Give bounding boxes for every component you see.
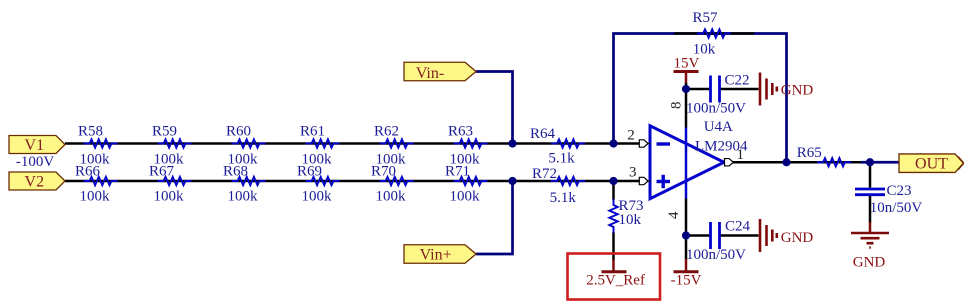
svg-text:100k: 100k — [376, 189, 407, 205]
power 2.5V_Ref — [586, 272, 645, 289]
junction node output / C23 — [866, 158, 874, 166]
capacitor C22 100n/50V — [686, 72, 750, 116]
resistor R63 100k — [448, 124, 488, 168]
svg-text:Vin-: Vin- — [416, 65, 444, 82]
wire feedback loop pin2 to output — [614, 34, 787, 163]
resistor R59 100k — [152, 124, 192, 168]
svg-text:R69: R69 — [297, 164, 322, 180]
svg-text:OUT: OUT — [915, 156, 948, 173]
port OUT tail chevron — [958, 157, 964, 170]
wire R73 to 2.5V_Ref — [612, 232, 615, 260]
svg-text:R60: R60 — [226, 124, 251, 140]
op-amp U4A LM2904 — [650, 119, 748, 199]
pin 2 arrow — [627, 127, 650, 147]
resistor R60 100k — [226, 124, 266, 168]
svg-text:R71: R71 — [445, 164, 470, 180]
wire opamp pin 4 to C24 node — [685, 199, 688, 236]
svg-text:GND: GND — [853, 254, 886, 270]
junction node pin3 — [609, 177, 617, 185]
power ground at C24 — [760, 219, 813, 252]
power 15V — [673, 56, 699, 72]
resistor R73 10k (vertical) — [609, 198, 643, 233]
wire Vin- to top chain — [476, 72, 513, 144]
resistor R62 100k — [374, 124, 414, 168]
svg-text:2.5V_Ref: 2.5V_Ref — [586, 272, 645, 288]
wire C24 node to -15V — [685, 236, 688, 260]
svg-text:R57: R57 — [692, 10, 718, 26]
svg-text:2: 2 — [627, 127, 635, 143]
svg-text:8: 8 — [669, 101, 685, 109]
power ground at C22 — [760, 73, 813, 106]
resistor R69 100k — [297, 164, 340, 205]
wire top resistor chain net — [65, 142, 640, 145]
wire C24 to power ground — [721, 234, 759, 237]
junction node Vin+ / bottom chain — [508, 177, 516, 185]
power -15V — [671, 272, 702, 289]
svg-text:10k: 10k — [619, 212, 642, 228]
svg-text:R68: R68 — [223, 164, 248, 180]
svg-text:Vin+: Vin+ — [420, 247, 452, 264]
svg-text:R62: R62 — [374, 124, 399, 140]
svg-text:100k: 100k — [302, 189, 333, 205]
resistor R65 — [797, 145, 851, 166]
wire pin3 node to R73 — [612, 181, 615, 200]
svg-text:V1: V1 — [25, 137, 45, 154]
svg-text:R61: R61 — [300, 124, 325, 140]
svg-text:R70: R70 — [371, 164, 396, 180]
svg-text:-15V: -15V — [671, 272, 702, 288]
svg-text:100k: 100k — [228, 189, 259, 205]
pin 1 arrow — [725, 147, 744, 166]
svg-text:V2: V2 — [25, 173, 45, 190]
resistor R61 100k — [300, 124, 340, 168]
junction node feedback / output — [782, 158, 790, 166]
port Vin- — [404, 62, 476, 82]
svg-text:100k: 100k — [154, 189, 185, 205]
wire pin8 node to opamp pin 8 — [685, 89, 688, 128]
junction node V+ supply — [682, 85, 690, 93]
svg-text:100n/50V: 100n/50V — [686, 100, 746, 116]
junction node pin2 — [609, 139, 617, 147]
wire R57 pins — [674, 32, 754, 35]
resistor R72 5.1k — [532, 166, 585, 206]
wire C23 to earth ground — [869, 196, 872, 224]
wire C24 node to C24 — [686, 234, 710, 237]
svg-text:1: 1 — [736, 147, 744, 163]
capacitor C24 100n/50V — [686, 219, 751, 263]
wire bottom resistor chain net — [65, 180, 640, 183]
svg-text:3: 3 — [629, 164, 637, 180]
resistor R68 100k — [223, 164, 266, 205]
highlight box around 2.5V_Ref — [568, 254, 661, 300]
resistor R57 10k — [692, 10, 731, 57]
pin 8 / pin 4 inner segment — [685, 128, 688, 199]
svg-text:100k: 100k — [80, 189, 111, 205]
svg-text:R72: R72 — [532, 166, 557, 182]
wire pin8 node to C22 — [686, 88, 710, 91]
svg-text:GND: GND — [781, 82, 814, 98]
wire C22 to power ground — [721, 88, 759, 91]
resistor R70 100k — [371, 164, 414, 205]
resistor R67 100k — [149, 164, 192, 205]
resistor R64 5.1k — [530, 126, 585, 166]
wire Vin+ to bottom chain — [476, 181, 513, 254]
svg-text:U4A: U4A — [704, 119, 733, 135]
wire output node down to C23 — [869, 162, 872, 187]
svg-text:5.1k: 5.1k — [548, 150, 575, 166]
svg-text:C22: C22 — [725, 72, 750, 88]
port V2 — [9, 172, 65, 190]
resistor R66 100k — [75, 164, 118, 205]
wire output node to OUT port — [861, 161, 899, 164]
junction node Vin- / top chain — [508, 139, 516, 147]
wire 15V to pin8 node — [685, 73, 688, 84]
svg-text:R65: R65 — [797, 145, 822, 161]
svg-text:4: 4 — [666, 211, 682, 219]
earth ground at C23 — [851, 233, 889, 248]
svg-text:C24: C24 — [725, 219, 751, 235]
svg-text:C23: C23 — [887, 183, 912, 199]
svg-text:15V: 15V — [673, 56, 699, 72]
svg-text:5.1k: 5.1k — [550, 190, 577, 206]
junction node V- supply — [682, 231, 690, 239]
svg-text:R63: R63 — [448, 124, 473, 140]
svg-text:R59: R59 — [152, 124, 177, 140]
svg-text:R66: R66 — [75, 164, 101, 180]
capacitor C23 10n/50V — [855, 183, 922, 216]
resistor R71 100k — [445, 164, 488, 205]
pin 3 arrow — [629, 164, 650, 184]
svg-text:100n/50V: 100n/50V — [686, 247, 746, 263]
svg-text:10n/50V: 10n/50V — [870, 200, 923, 216]
svg-text:100k: 100k — [450, 189, 481, 205]
port OUT — [899, 154, 964, 173]
resistor R58 100k — [78, 124, 118, 168]
wire opamp output to R65 — [733, 161, 863, 164]
svg-text:R67: R67 — [149, 164, 175, 180]
port V1 — [9, 136, 65, 154]
svg-text:R64: R64 — [530, 126, 556, 142]
svg-text:-100V: -100V — [16, 154, 54, 170]
svg-text:GND: GND — [781, 230, 814, 246]
svg-text:R58: R58 — [78, 124, 103, 140]
port Vin+ — [404, 245, 476, 264]
